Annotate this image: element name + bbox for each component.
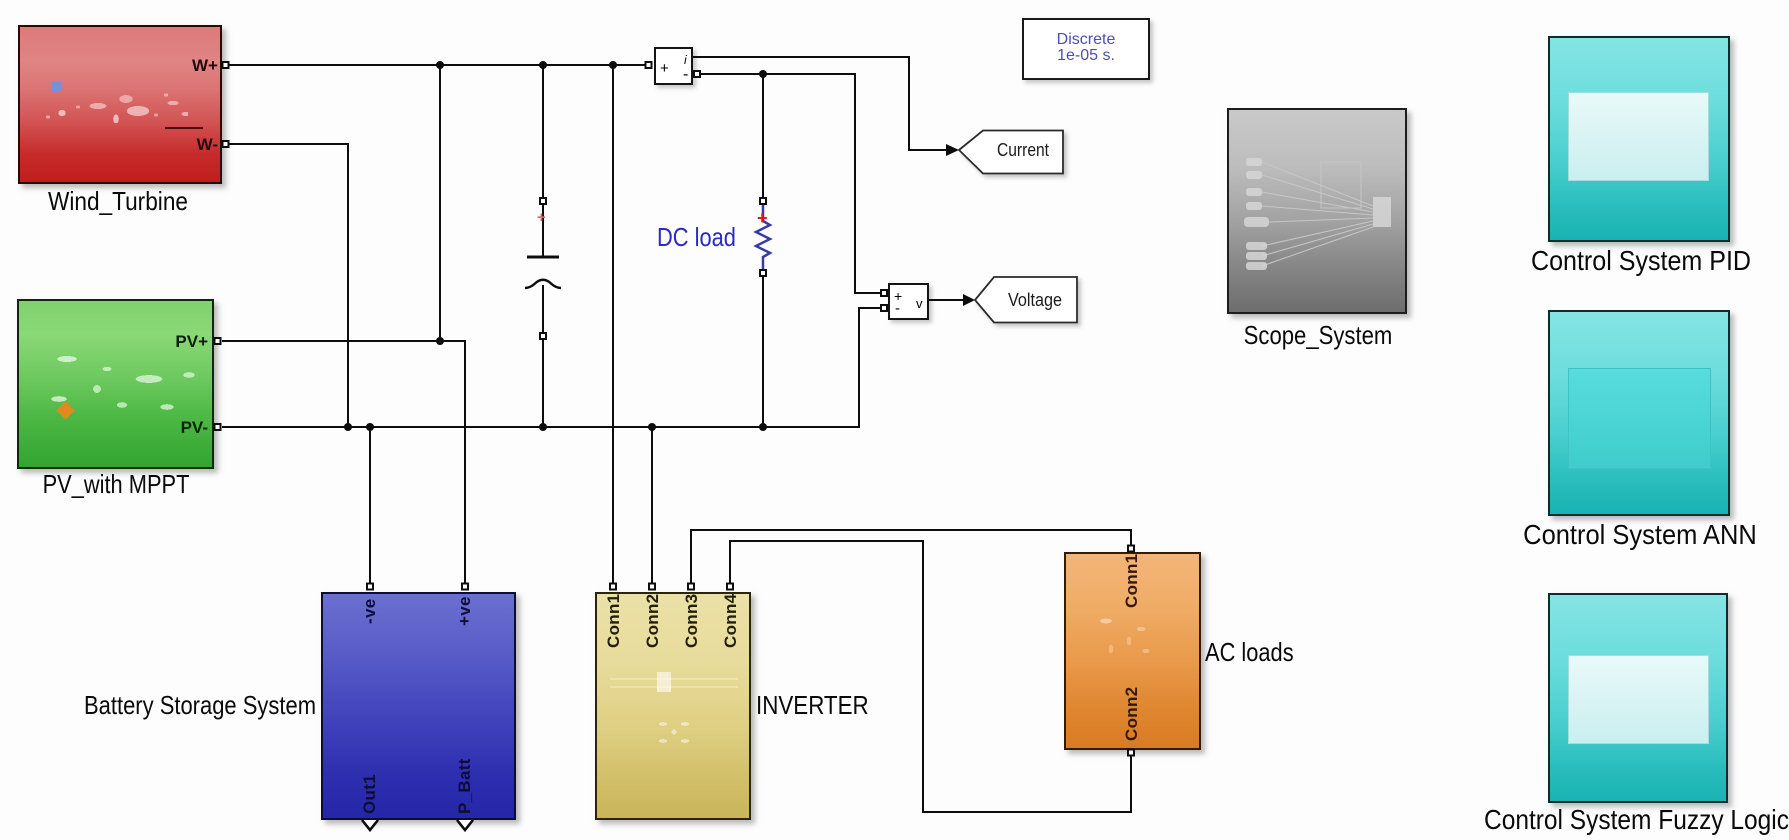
port square capacitor bottom bbox=[540, 333, 546, 339]
port label Conn2 (inverter) bbox=[644, 594, 661, 648]
junction node capacitor on PV- rail bbox=[539, 423, 547, 431]
port label +ve bbox=[456, 596, 473, 626]
svg-text:+: + bbox=[537, 209, 546, 226]
port square battery -ve bbox=[367, 584, 373, 590]
junction node on W+ rail at x=543 bbox=[539, 61, 547, 69]
port label PV+ bbox=[158, 333, 208, 350]
wire voltage sensor output to Voltage tag bbox=[929, 299, 963, 301]
wire PV+ rail to battery +ve bbox=[222, 341, 465, 584]
wire battery -ve branch bbox=[369, 427, 371, 584]
wire capacitor bottom branch bbox=[542, 285, 544, 427]
resistor DC load bbox=[756, 205, 770, 270]
junction node DC load top on minus wire bbox=[759, 70, 767, 78]
output port chevron P_Batt bbox=[457, 820, 473, 830]
label Scope_System bbox=[1244, 320, 1393, 350]
port square battery +ve bbox=[462, 584, 468, 590]
subsystem Control System PID bbox=[1548, 36, 1730, 242]
svg-text:Voltage: Voltage bbox=[1008, 290, 1062, 310]
port square inverter Conn3 bbox=[688, 584, 694, 590]
label PV_with MPPT bbox=[43, 469, 190, 499]
port label Conn4 (inverter) bbox=[722, 594, 739, 648]
subsystem Scope_System bbox=[1227, 108, 1407, 314]
port label PV- bbox=[158, 419, 208, 436]
port label W+ bbox=[168, 57, 218, 74]
wire inverter Conn3 to AC loads Conn1 bbox=[691, 530, 1131, 584]
subsystem INVERTER bbox=[595, 592, 751, 820]
port square AC loads Conn1 bbox=[1128, 546, 1134, 552]
port label Conn3 (inverter) bbox=[683, 594, 700, 648]
label Control System ANN bbox=[1523, 519, 1757, 551]
port square voltage sensor - input bbox=[881, 305, 887, 311]
port label Conn1 (AC loads) bbox=[1123, 554, 1140, 608]
port square PV- bbox=[215, 424, 221, 430]
subsystem Control System Fuzzy Logic bbox=[1548, 593, 1728, 803]
port square current sensor - output bbox=[694, 71, 700, 77]
port square inverter Conn4 bbox=[727, 584, 733, 590]
subsystem Control System ANN bbox=[1548, 310, 1730, 516]
wire capacitor top branch bbox=[542, 65, 544, 256]
junction node on W+ rail at x=613 bbox=[609, 61, 617, 69]
label INVERTER bbox=[756, 690, 869, 720]
label AC loads bbox=[1205, 637, 1294, 667]
arrowhead into Voltage tag bbox=[963, 294, 975, 306]
label Control System Fuzzy Logic bbox=[1484, 804, 1789, 836]
port label Out1 bbox=[361, 774, 378, 814]
capacitor C bbox=[525, 209, 561, 288]
wire current sensor minus to voltage sensor plus bbox=[701, 74, 880, 293]
wire W+ rail to PV+ rail bbox=[439, 65, 441, 341]
junction node DC load on PV- rail bbox=[759, 423, 767, 431]
Goto tag Current bbox=[959, 131, 1063, 174]
port square current sensor + input bbox=[646, 62, 652, 68]
current sensor bbox=[654, 47, 693, 85]
junction node on PV+ rail bbox=[436, 337, 444, 345]
port label -ve bbox=[361, 599, 378, 624]
wire DC load bottom branch bbox=[762, 273, 764, 427]
wire DC load top branch bbox=[762, 74, 764, 200]
port square inverter Conn2 bbox=[649, 584, 655, 590]
junction node battery -ve on PV- rail bbox=[366, 423, 374, 431]
svg-text:+: + bbox=[757, 208, 768, 228]
wire DC bus to inverter Conn1 bbox=[612, 65, 614, 584]
port square W- bbox=[223, 141, 229, 147]
label Wind_Turbine bbox=[48, 186, 188, 216]
wire inverter Conn2 branch bbox=[651, 427, 653, 584]
port square PV+ bbox=[215, 338, 221, 344]
port label P_Batt bbox=[456, 758, 473, 814]
port square W+ bbox=[223, 62, 229, 68]
wire W- down to PV- rail bbox=[229, 144, 348, 427]
annotation DC load bbox=[657, 222, 736, 252]
port square inverter Conn1 bbox=[610, 584, 616, 590]
junction node on W+ rail at x=440 bbox=[436, 61, 444, 69]
subsystem Battery Storage System bbox=[321, 592, 516, 820]
subsystem PV_with MPPT bbox=[17, 299, 214, 469]
port square voltage sensor + input bbox=[881, 290, 887, 296]
wire inverter Conn4 to AC loads Conn2 bbox=[730, 541, 1131, 812]
port label Conn1 (inverter) bbox=[605, 594, 622, 648]
powergui block Discrete 1e-05 s. bbox=[1022, 18, 1150, 80]
output port chevron Out1 bbox=[362, 820, 378, 830]
wire W+ rail bbox=[229, 64, 645, 66]
port label Conn2 (AC loads) bbox=[1123, 687, 1140, 741]
port square DC load top bbox=[760, 198, 766, 204]
label Control System PID bbox=[1531, 245, 1751, 277]
subsystem Wind_Turbine bbox=[18, 25, 222, 184]
port label W- bbox=[168, 136, 218, 153]
Goto tag Voltage bbox=[975, 277, 1077, 323]
arrowhead into Current tag bbox=[946, 144, 959, 156]
junction node inverter Conn2 on PV- rail bbox=[648, 423, 656, 431]
port square capacitor top bbox=[540, 198, 546, 204]
subsystem AC loads bbox=[1064, 552, 1201, 750]
wire PV- rail bbox=[222, 308, 880, 427]
voltage sensor bbox=[888, 283, 929, 320]
junction node W- joins PV- rail bbox=[344, 423, 352, 431]
svg-text:Current: Current bbox=[997, 140, 1049, 160]
port square AC loads Conn2 bbox=[1128, 750, 1134, 756]
wire current sensor i output to Current tag bbox=[693, 57, 946, 150]
port square DC load bottom bbox=[760, 270, 766, 276]
label Battery Storage System bbox=[84, 690, 316, 720]
